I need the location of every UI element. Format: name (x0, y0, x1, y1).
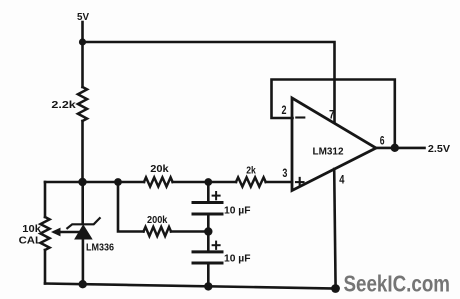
resistor R1 2.2k (78, 87, 87, 121)
node: cap mid junction (204, 227, 212, 235)
svg-text:2.5V: 2.5V (428, 144, 450, 155)
node: mid rail at 200k tap (114, 178, 122, 186)
wire: pin 4 down (334, 169, 335, 289)
wire: output (376, 147, 425, 150)
svg-text:10k: 10k (22, 224, 41, 235)
capacitor C1 lead top (207, 182, 210, 202)
resistor R4 2k (236, 177, 266, 186)
svg-text:LM336: LM336 (86, 243, 114, 254)
svg-text:CAL: CAL (19, 236, 42, 247)
wire: left branch upper (81, 42, 84, 87)
capacitor C2 lead bottom (207, 264, 210, 287)
capacitor C2 plates (193, 250, 222, 253)
wire: pot wiper arrow shaft (55, 231, 79, 234)
op-amp minus sign (296, 116, 304, 118)
capacitor C2 lead top (207, 232, 210, 252)
potentiometer R5 10k CAL (40, 217, 49, 250)
svg-text:2k: 2k (246, 166, 256, 177)
svg-text:LM312: LM312 (313, 146, 344, 157)
node: bottom rail at pin 4 (331, 284, 340, 293)
wire: top rail and pin 7 supply (83, 42, 335, 122)
wire: LM336 anode lead (82, 240, 85, 285)
svg-text:2: 2 (282, 103, 287, 117)
wire: bottom rail (45, 284, 335, 289)
node: output pin 6 (391, 144, 399, 152)
svg-text:2.2k: 2.2k (51, 100, 76, 111)
wire: 2.2k to mid node (81, 121, 84, 182)
capacitor C1 plus sign (213, 195, 220, 197)
wire: pin 3 input (266, 181, 292, 184)
svg-text:10 µF: 10 µF (224, 254, 251, 265)
diode D1 LM336 cathode bar (67, 218, 99, 228)
wire: pot bottom lead (44, 250, 47, 284)
wire: pot top lead (44, 182, 47, 217)
svg-text:3: 3 (282, 166, 287, 180)
diode D1 LM336 anode triangle (74, 224, 93, 239)
svg-text:6: 6 (380, 134, 385, 148)
node: cap C1 top (204, 178, 212, 186)
wire: LM336 cathode lead (81, 182, 84, 224)
wire: mid rail left (45, 181, 144, 184)
op-amp U1 LM312 body (292, 98, 376, 191)
wire: feedback loop pin2 to pin6 (272, 80, 395, 148)
svg-text:20k: 20k (150, 164, 169, 175)
capacitor C1 plates (193, 201, 222, 204)
wire: 5V lead (81, 22, 84, 42)
svg-text:7: 7 (329, 107, 335, 121)
capacitor C1 lead bottom (207, 215, 210, 232)
wire: 20k to 2k (173, 181, 236, 184)
svg-text:4: 4 (339, 172, 344, 186)
svg-text:5V: 5V (77, 12, 89, 23)
wire: down to 200k (118, 182, 144, 232)
wire: 200k to cap node (171, 230, 208, 233)
resistor R2 20k (144, 177, 173, 186)
svg-text:10 µF: 10 µF (224, 206, 251, 217)
svg-text:200k: 200k (147, 215, 168, 226)
wire: pot wiper arrowhead (51, 228, 61, 237)
node: bottom rail at C2 (204, 282, 212, 290)
node: 5V junction (79, 38, 86, 45)
node: mid rail at LM336 (78, 178, 86, 186)
node: bottom rail at LM336 (79, 280, 87, 288)
svg-text:SeekIC.com: SeekIC.com (344, 271, 451, 297)
resistor R3 200k (144, 227, 172, 236)
op-amp plus sign (296, 181, 304, 183)
capacitor C2 plus sign (213, 244, 220, 246)
